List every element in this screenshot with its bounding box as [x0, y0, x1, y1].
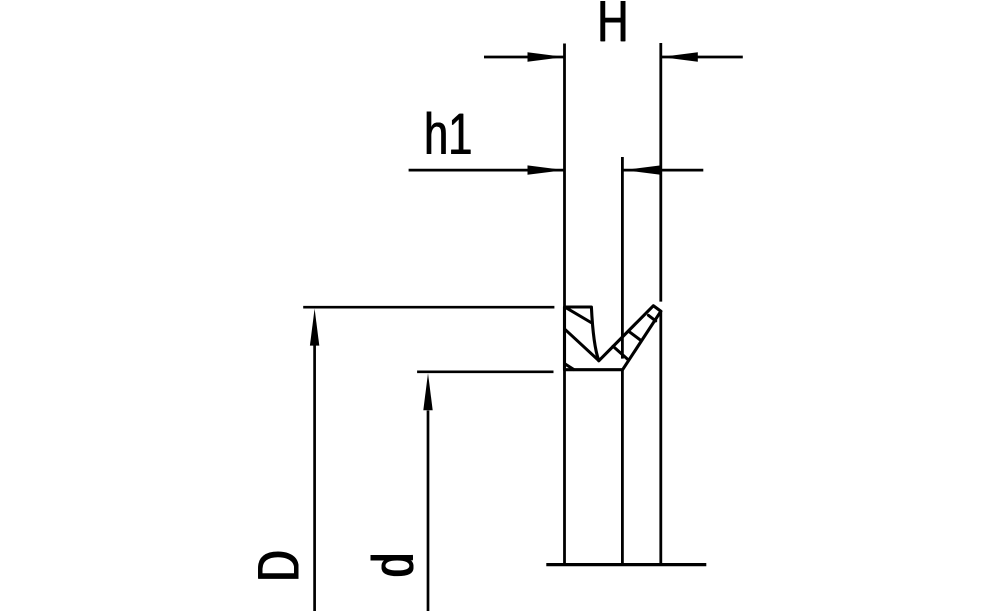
arrow d up: [423, 373, 432, 410]
wire dimension line D vertical: [313, 345, 316, 611]
wire dimension line H left tail: [484, 56, 565, 59]
wire bottom base line: [546, 563, 706, 566]
wire dimension line h1 left tail: [409, 169, 565, 172]
wire right rod line upper: [659, 43, 662, 302]
svg-text:h1: h1: [424, 102, 472, 166]
hatch left lip 1: [567, 308, 591, 322]
hatch right lip lower: [613, 346, 628, 359]
wire dimension line d vertical: [427, 411, 430, 611]
wire right rod line lower: [659, 311, 662, 564]
arrow H right: [661, 52, 698, 61]
arrow H left: [528, 52, 565, 61]
arrow h1 left: [528, 165, 565, 174]
label h1: [424, 102, 472, 166]
wire extension line D: [303, 306, 554, 309]
label H: [597, 0, 628, 53]
wire middle extension line lower: [621, 370, 624, 565]
wire extension line d: [417, 370, 553, 373]
label d: [361, 553, 425, 577]
wire middle extension line upper: [621, 157, 624, 359]
wiper seal cross-section profile: [565, 306, 661, 370]
svg-text:H: H: [597, 0, 628, 53]
hatch left bottom corner: [565, 364, 574, 370]
hatch right lip tip facet: [648, 315, 655, 321]
arrow h1 right: [624, 165, 661, 174]
svg-text:D: D: [247, 550, 311, 581]
wire dimension line h1 right tail: [624, 169, 704, 172]
hatch right lip middle: [629, 331, 641, 340]
arrow D up: [310, 309, 319, 346]
wire left bore line: [563, 44, 566, 565]
svg-text:d: d: [361, 553, 425, 577]
hatch left lip 2: [565, 329, 599, 360]
wire dimension line H right tail: [661, 56, 743, 59]
label D: [247, 550, 311, 581]
